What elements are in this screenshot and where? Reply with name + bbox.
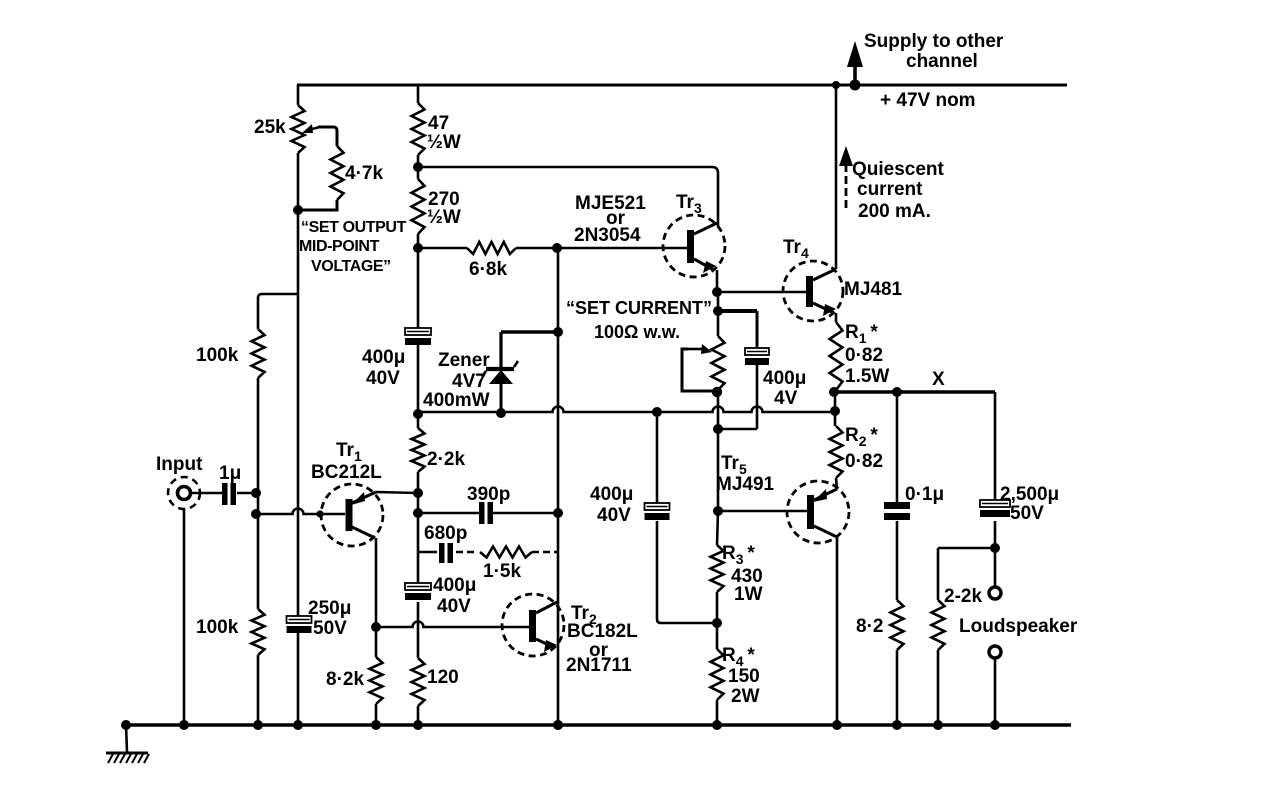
svg-text:400μ: 400μ [590,484,633,505]
node Tr3 emitter junction [712,287,722,297]
resistor 100k upper [252,329,265,378]
node zener top junction [553,327,563,337]
wire 47/270 junction to Tr3 collector [418,167,718,226]
capacitor 400u 40V (mid) [656,412,659,503]
wire 1u to junction [237,492,256,495]
svg-text:120: 120 [427,667,459,688]
svg-text:390p: 390p [467,484,510,505]
svg-text:Zener: Zener [438,350,490,371]
wire Tr5 base [718,510,807,513]
wire Tr4 emitter to R1 [835,313,838,322]
svg-text:Supply to other: Supply to other [864,31,1004,52]
svg-text:Quiescent: Quiescent [852,159,945,180]
resistor 2.2k (output) [937,548,940,600]
node R1 bottom / X [829,387,839,397]
wire 270 junction to 6.8k [418,247,467,250]
resistor 6.8k [467,242,516,254]
capacitor 400u 40V (Tr1 emitter bypass) [405,583,431,590]
resistor 25k (preset pot) [297,85,300,105]
svg-text:100k: 100k [196,345,239,366]
svg-text:400mW: 400mW [423,390,490,411]
node 25k/4.7k junction [293,205,303,215]
node 47/270 junction [417,155,420,179]
node Tr5 base junction [713,506,723,516]
node 400u top junction [652,407,662,417]
wire 390p left [418,512,479,515]
svg-text:400μ: 400μ [763,368,806,389]
potentiometer 100R w.w. [712,336,725,390]
resistor 47 1/2W [417,85,420,103]
node 390p junction [417,493,420,583]
svg-text:1.5W: 1.5W [845,366,889,387]
svg-text:VOLTAGE”: VOLTAGE” [311,258,391,275]
wire X output [834,390,995,394]
svg-text:MID-POINT: MID-POINT [299,238,380,255]
wire cap to mid node [417,345,420,414]
wire jog to input divider [258,294,298,329]
svg-text:2N1711: 2N1711 [566,655,632,676]
resistor 100k lower [252,609,265,655]
supply arrow to other channel [853,54,857,85]
node Tr2 bottom rail junction [553,720,563,730]
node Tr1 emitter junction [413,488,423,498]
node Tr1 collector junction [371,622,381,632]
capacitor 1u [222,483,228,505]
node zener bottom [496,408,506,418]
svg-text:4·7k: 4·7k [345,163,383,184]
wire Tr1 collector down [375,538,378,627]
svg-text:Loudspeaker: Loudspeaker [959,616,1078,637]
transistor Tr1 BC212L [321,484,383,546]
wire Tr4 base [717,291,806,294]
svg-text:100Ω w.w.: 100Ω w.w. [594,322,680,342]
wire cap bottom to Tr5 base line [756,365,759,429]
svg-text:BC182L: BC182L [567,621,638,642]
node base junction [251,509,261,519]
transistor Tr5 MJ491 [787,481,849,543]
svg-text:680p: 680p [424,523,467,544]
svg-text:8·2k: 8·2k [326,669,364,690]
loudspeaker terminal 1 [994,548,997,587]
quiescent current arrow [845,164,848,208]
svg-text:“SET CURRENT”: “SET CURRENT” [566,298,712,318]
wire down to 120 [417,602,420,658]
node 390p right junction [553,508,563,518]
wire input to 1u [191,492,223,495]
svg-text:½W: ½W [427,132,461,153]
resistor 270 1/2W [412,179,425,234]
wire to 400u 4V cap top [718,309,757,313]
svg-text:BC212L: BC212L [311,462,382,483]
wire Tr3 base [557,247,687,250]
svg-text:½W: ½W [427,207,461,228]
node rail junction Tr4 [832,81,840,89]
svg-text:40V: 40V [366,368,400,389]
svg-text:“SET OUTPUT: “SET OUTPUT [301,219,407,236]
svg-text:40V: 40V [437,596,471,617]
wire cap down to R3/R4 junction [657,521,715,623]
svg-text:current: current [857,179,923,200]
resistor R2 0.82 [830,426,843,478]
capacitor 400u 4V [745,348,769,355]
svg-text:0·1μ: 0·1μ [905,484,944,505]
capacitor 2500u 50V [980,500,1010,507]
wire bias line x298 down [297,153,300,616]
capacitor 390p [479,502,485,524]
svg-text:2N3054: 2N3054 [574,225,641,246]
capacitor 400u 40V (bootstrap) [405,328,431,335]
svg-text:2-2k: 2-2k [944,586,982,607]
wire to 2.2k [938,547,995,550]
svg-text:250μ: 250μ [308,598,351,619]
resistor R1 0.82 [830,322,843,390]
svg-text:40V: 40V [597,505,631,526]
wire Tr1 emitter to 2.2k bottom [376,492,418,493]
wire Tr2 collector line x558 [557,248,560,725]
wire input screen to ground [183,509,186,725]
loudspeaker terminal 2 [989,646,1001,658]
svg-text:200 mA.: 200 mA. [858,201,931,222]
node 2.2k / speaker junction [990,543,1000,553]
svg-text:1·5k: 1·5k [483,561,521,582]
svg-text:8·2: 8·2 [856,616,883,637]
resistor R4 150 2W [711,649,724,700]
svg-text:MJ491: MJ491 [716,474,775,495]
svg-text:2,500μ: 2,500μ [1000,484,1059,505]
node rail dots [121,720,131,730]
svg-text:50V: 50V [313,618,347,639]
wire X to 2500u [994,392,997,500]
ground symbol [126,725,127,752]
resistor 4.7k [331,146,344,200]
svg-text:150: 150 [728,666,760,687]
node input junction [251,488,261,498]
wire pot bottom down [717,392,720,511]
svg-text:0·82: 0·82 [845,345,883,366]
wire Tr1 base (hops x298) [256,509,345,514]
wire x718 down [717,292,720,336]
svg-text:1W: 1W [734,584,763,605]
node mid wire right end [830,406,840,416]
pot wiper arrow 25k [308,127,320,130]
node base wire blob [316,510,323,517]
svg-text:2W: 2W [731,686,760,707]
wire 4.7k bottom to 25k bottom junction [298,200,337,210]
resistor R3 430 1W [717,511,718,545]
wire wiper loop [682,349,713,391]
svg-text:400μ: 400μ [362,347,405,368]
transistor Tr2 BC182L [502,594,564,656]
resistor 8.2 [896,521,899,600]
svg-text:2·2k: 2·2k [427,449,465,470]
transistor Tr4 MJ481 [783,261,843,321]
wire supply rail +47V [297,84,1067,87]
node 0.1u junction [892,387,902,397]
node R3/R4 junction [716,592,719,649]
node 6.8k / Tr3 base / Tr2 collector [552,243,562,253]
resistor 1.5k [480,547,532,558]
node pot bottom [712,387,722,397]
svg-text:100k: 100k [196,617,239,638]
wire Tr1 collector to Tr2 base (hops 418) [376,622,529,628]
wire x258 [257,378,260,609]
svg-text:0·82: 0·82 [845,451,883,472]
node supply junction [850,80,861,91]
wire amplifier mid-point (hops 558,718,757) [418,407,835,412]
resistor 2.2k [417,414,420,428]
wire Tr5 collector to rail [836,537,839,725]
svg-text:4V7: 4V7 [452,371,486,392]
svg-text:+ 47V nom: + 47V nom [880,90,976,111]
wire wiper to 4.7k [318,127,337,146]
svg-text:X: X [932,369,945,390]
node cap return junction [713,424,723,434]
capacitor 250u 50V [287,616,312,623]
resistor 8.2k [375,627,378,657]
wire Tr4 collector to rail [835,85,838,269]
wire ground rail (bottom) [123,723,1071,726]
pot wiper arrow [688,348,704,351]
svg-text:MJ481: MJ481 [844,279,903,300]
zener 4V7 400mW [501,330,558,334]
svg-text:1μ: 1μ [219,463,241,484]
node set-current top [713,306,723,316]
svg-text:25k: 25k [254,117,286,138]
transistor Tr3 MJE521 [663,215,725,277]
svg-text:channel: channel [906,51,978,72]
node input connector [168,477,200,509]
svg-text:400μ: 400μ [433,575,476,596]
wire 390p right [493,512,558,515]
svg-text:6·8k: 6·8k [469,259,507,280]
node mid wire left end [413,409,423,419]
svg-text:Input: Input [156,454,203,475]
svg-text:47: 47 [428,113,449,134]
capacitor 0.1u [896,392,899,502]
node 270/6.8k junction [417,234,420,328]
resistor 120 [412,658,425,706]
svg-text:50V: 50V [1010,503,1044,524]
svg-text:4V: 4V [774,388,798,409]
